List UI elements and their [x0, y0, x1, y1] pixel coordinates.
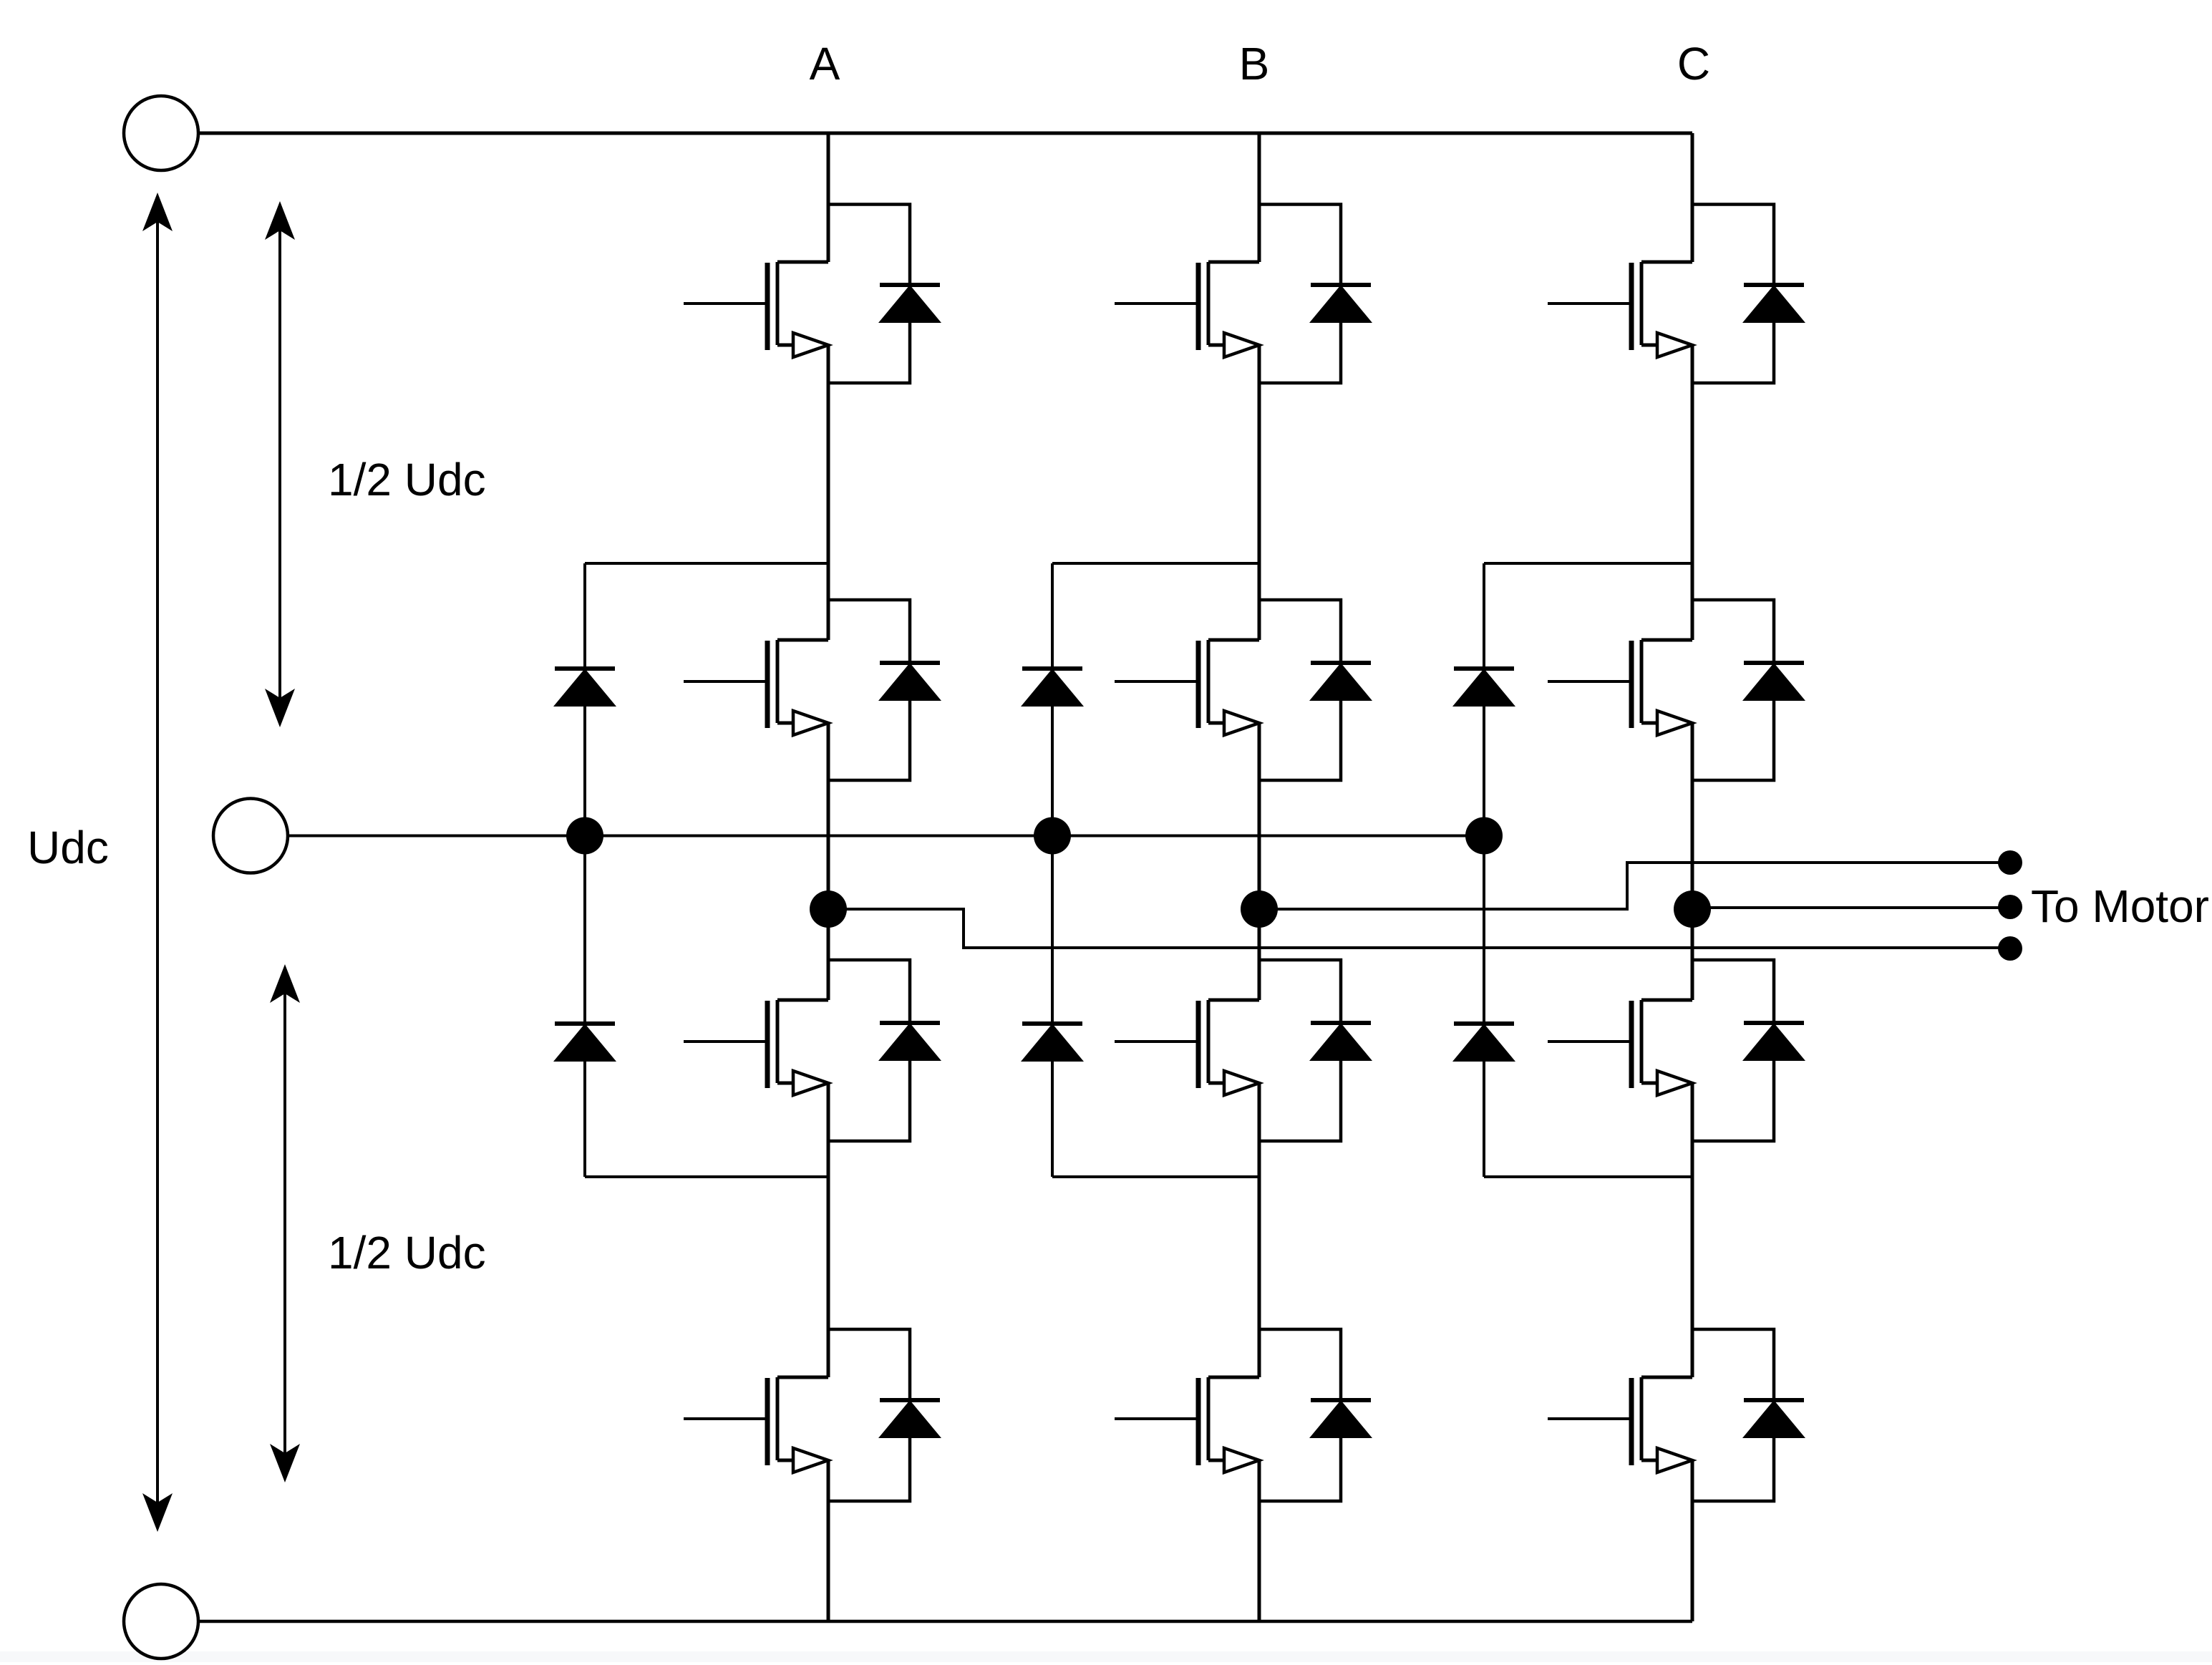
wire neutral rail [288, 835, 1484, 838]
transistor Q4A [684, 1377, 828, 1472]
diode D3C antiparallel [1692, 960, 1805, 1141]
svg-text:A: A [810, 38, 840, 89]
diode D1B antiparallel [1259, 205, 1372, 384]
transistor Q2A [684, 640, 828, 735]
diode DcC1 clamp upper [1452, 669, 1515, 707]
diode D3B antiparallel [1259, 960, 1372, 1141]
wire phase B to motor [1259, 863, 2010, 909]
diode DcA2 clamp lower [553, 1024, 616, 1062]
transistor Q3C [1548, 1000, 1692, 1095]
diode D2B antiparallel [1259, 600, 1372, 780]
wire clamp branch B [1052, 563, 1259, 1177]
node motor terminal A [1998, 936, 2022, 961]
transistor Q2C [1548, 640, 1692, 735]
wire phase A leg [827, 133, 830, 1621]
svg-text:B: B [1239, 38, 1270, 89]
wire clamp branch A [585, 563, 828, 1177]
transistor Q1C [1548, 262, 1692, 357]
diode D1C antiparallel [1692, 205, 1805, 384]
wire bottom DC- bus [198, 1620, 1692, 1623]
terminal DC- [124, 1584, 198, 1659]
diode DcA1 clamp upper [553, 669, 616, 707]
diode D2C antiparallel [1692, 600, 1805, 780]
transistor Q1A [684, 262, 828, 357]
transistor Q3A [684, 1000, 828, 1095]
transistor Q2B [1115, 640, 1259, 735]
diode D4C antiparallel [1692, 1329, 1805, 1501]
svg-text:To Motor: To Motor [2031, 880, 2209, 932]
svg-text:1/2 Udc: 1/2 Udc [328, 454, 486, 505]
svg-text:Udc: Udc [27, 822, 109, 873]
wire phase B leg [1258, 133, 1261, 1621]
wire clamp branch C [1484, 563, 1692, 1177]
node phase A output [810, 890, 847, 928]
svg-text:1/2 Udc: 1/2 Udc [328, 1227, 486, 1278]
transistor Q4B [1115, 1377, 1259, 1472]
svg-text:C: C [1677, 38, 1710, 89]
transistor Q4C [1548, 1377, 1692, 1472]
diode DcC2 clamp lower [1452, 1024, 1515, 1062]
arrow 1/2 Udc lower span [283, 991, 286, 1455]
transistor Q1B [1115, 262, 1259, 357]
node phase C output [1674, 890, 1711, 928]
terminal neutral [213, 799, 288, 873]
node phase B output [1241, 890, 1278, 928]
node motor terminal C [1998, 895, 2022, 919]
wire phase C to motor [1692, 906, 2010, 909]
diode D4A antiparallel [828, 1329, 941, 1501]
wire top DC+ bus [198, 132, 1692, 135]
arrow 1/2 Udc upper span [278, 228, 281, 700]
node neutral junction B [1034, 817, 1071, 855]
diode D4B antiparallel [1259, 1329, 1372, 1501]
transistor Q3B [1115, 1000, 1259, 1095]
node neutral junction C [1465, 817, 1503, 855]
diode DcB1 clamp upper [1021, 669, 1084, 707]
diode D3A antiparallel [828, 960, 941, 1141]
diode D1A antiparallel [828, 205, 941, 384]
node neutral junction A [566, 817, 603, 855]
bottom window strip [0, 1651, 2212, 1662]
wire phase A to motor [828, 909, 2010, 948]
arrow Udc span [156, 220, 159, 1505]
diode D2A antiparallel [828, 600, 941, 780]
terminal DC+ [124, 96, 198, 170]
wire phase C leg [1691, 133, 1694, 1621]
node motor terminal B [1998, 850, 2022, 875]
diode DcB2 clamp lower [1021, 1024, 1084, 1062]
